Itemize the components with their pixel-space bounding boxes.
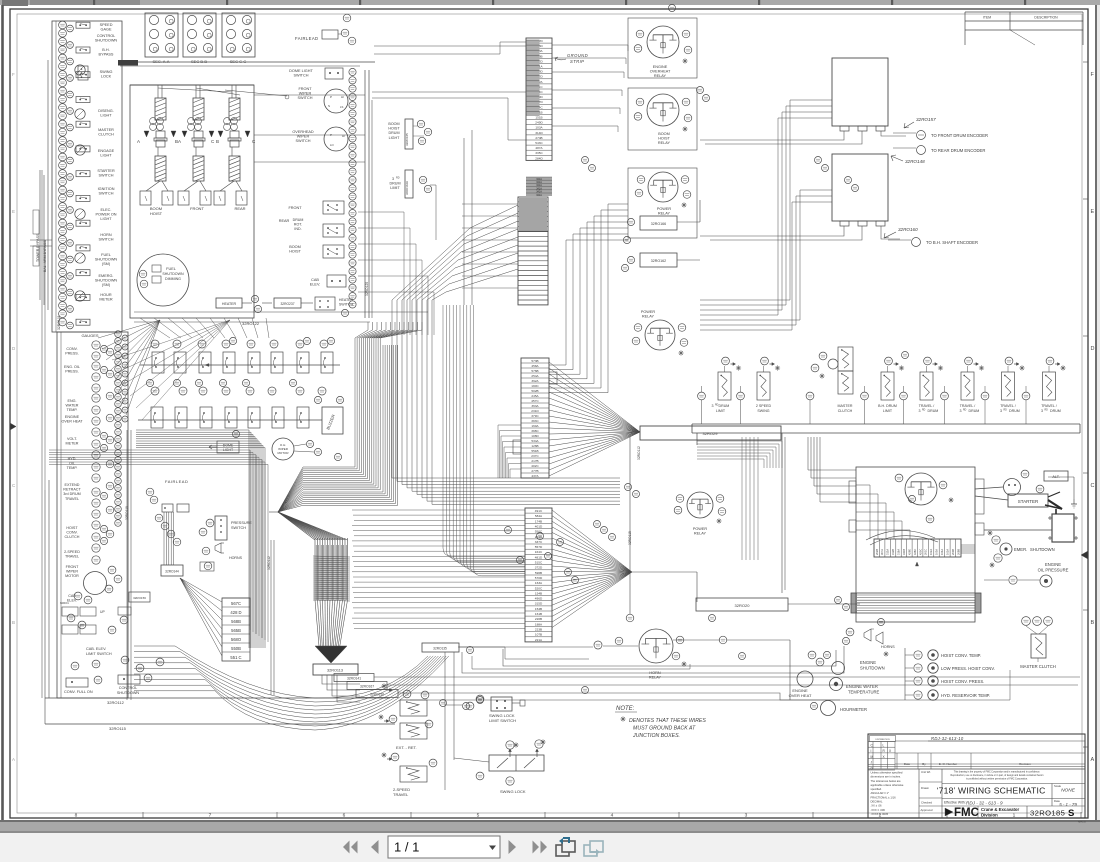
svg-text:32RO112: 32RO112 (637, 446, 641, 460)
svg-text:Scale: Scale (1054, 784, 1061, 788)
svg-text:32RO166: 32RO166 (651, 222, 666, 226)
svg-text:B: B (12, 620, 15, 625)
svg-text:3: 3 (960, 409, 962, 413)
svg-text:CONV.: CONV. (66, 531, 77, 535)
svg-text:MASTER CLUTCH: MASTER CLUTCH (1020, 664, 1056, 669)
svg-text:SHUTDOWN: SHUTDOWN (95, 258, 118, 262)
svg-text:92RO1: 92RO1 (60, 601, 69, 605)
svg-text:EMERG.: EMERG. (99, 274, 114, 278)
svg-text:RELAY: RELAY (658, 141, 671, 145)
svg-text:NOTE:: NOTE: (616, 706, 635, 712)
svg-text:5: 5 (477, 813, 480, 819)
svg-text:3: 3 (1041, 409, 1043, 413)
svg-text:STARTER: STARTER (1018, 499, 1039, 504)
svg-text:32RO162: 32RO162 (651, 259, 666, 263)
svg-text:277B: 277B (531, 469, 538, 473)
svg-text:SHUTDOWN: SHUTDOWN (1030, 547, 1055, 552)
svg-text:401D: 401D (535, 525, 543, 529)
svg-text:420C: 420C (918, 549, 922, 555)
svg-text:LIMIT SWITCH: LIMIT SWITCH (489, 718, 516, 723)
svg-text:(SM): (SM) (102, 262, 111, 266)
svg-text:LIMIT: LIMIT (716, 409, 726, 413)
svg-text:596B: 596B (535, 571, 542, 575)
svg-text:Date: Date (904, 762, 911, 766)
svg-text:496D: 496D (535, 597, 543, 601)
svg-text:HOIST CONV. TEMP.: HOIST CONV. TEMP. (941, 653, 981, 658)
svg-text:32RO20: 32RO20 (735, 603, 751, 608)
svg-text:32RO118: 32RO118 (57, 316, 61, 330)
svg-text:3: 3 (919, 409, 921, 413)
svg-text:32RO165: 32RO165 (405, 133, 409, 146)
svg-text:32RO144: 32RO144 (165, 570, 179, 574)
svg-text:E: E (1091, 209, 1095, 215)
svg-text:TEMPERATURE: TEMPERATURE (848, 690, 880, 695)
svg-text:RELAY: RELAY (654, 74, 667, 78)
svg-text:8: 8 (75, 813, 78, 819)
svg-text:CONTROL: CONTROL (97, 34, 116, 38)
svg-text:154B: 154B (535, 591, 542, 595)
svg-text:CLUTCH: CLUTCH (98, 133, 114, 137)
svg-text:TO REAR DRUM ENCODER: TO REAR DRUM ENCODER (931, 148, 985, 153)
svg-text:TRAVEL: TRAVEL (393, 792, 409, 797)
svg-text:573B: 573B (531, 359, 538, 363)
svg-text:SEC C-C: SEC C-C (230, 59, 247, 64)
svg-text:208B: 208B (956, 549, 960, 555)
svg-text:POWER ON: POWER ON (95, 213, 116, 217)
svg-text:2-SPEED: 2-SPEED (64, 550, 80, 554)
svg-text:DRUM: DRUM (928, 409, 939, 413)
svg-text:ITEM: ITEM (983, 16, 991, 20)
svg-text:HI: HI (342, 134, 345, 138)
svg-text:NONE: NONE (1061, 788, 1076, 794)
svg-text:3rd DRUM: 3rd DRUM (63, 492, 80, 496)
svg-text:OVER HEAT: OVER HEAT (789, 693, 812, 698)
svg-text:ENGINE: ENGINE (653, 65, 668, 69)
svg-text:502B: 502B (531, 389, 538, 393)
svg-text:OVER HEAT: OVER HEAT (61, 420, 83, 424)
svg-text:164C: 164C (535, 550, 543, 554)
svg-text:REAR: REAR (234, 206, 245, 211)
svg-text:TO B.H. SHAFT ENCODER: TO B.H. SHAFT ENCODER (926, 240, 978, 245)
svg-text:WIPER: WIPER (66, 570, 78, 574)
svg-text:254A: 254A (531, 374, 539, 378)
svg-text:TRAVEL: TRAVEL (65, 555, 79, 559)
svg-text:4: 4 (611, 813, 614, 819)
svg-text:RD: RD (1045, 410, 1049, 412)
svg-text:applicable unless otherwise: applicable unless otherwise (871, 783, 904, 787)
svg-text:487A: 487A (535, 146, 543, 150)
svg-text:OVERHEAT: OVERHEAT (650, 70, 671, 74)
svg-text:.XXXX ± .0005: .XXXX ± .0005 (871, 812, 889, 816)
svg-text:SWING LOCK: SWING LOCK (500, 789, 526, 794)
svg-text:DRUM: DRUM (969, 409, 980, 413)
svg-text:By: By (922, 762, 926, 766)
svg-text:OVERHEAD: OVERHEAD (292, 130, 314, 134)
svg-text:EMER.: EMER. (1014, 547, 1027, 552)
svg-text:Reproduction, use or disclosur: Reproduction, use or disclosure, in whol… (951, 774, 1045, 777)
svg-text:HOIST: HOIST (388, 127, 400, 131)
svg-text:PRESS.: PRESS. (65, 370, 79, 374)
svg-text:335C: 335C (535, 151, 543, 155)
svg-text:428 D: 428 D (230, 610, 241, 615)
svg-text:SWITCH: SWITCH (298, 96, 313, 100)
svg-text:DESCRIPTION: DESCRIPTION (1034, 16, 1058, 20)
svg-text:CAB: CAB (68, 594, 76, 598)
svg-text:BOOM: BOOM (658, 132, 670, 136)
svg-text:RELAY: RELAY (694, 532, 707, 536)
svg-text:DRUM: DRUM (388, 131, 399, 135)
svg-text:TOWER BYPASS: TOWER BYPASS (36, 233, 40, 262)
svg-text:CAB: CAB (311, 278, 319, 282)
svg-text:Division: Division (981, 813, 998, 818)
svg-text:32RO164A: 32RO164A (405, 181, 409, 195)
svg-text:108D: 108D (531, 434, 539, 438)
svg-text:TEMP.: TEMP. (67, 466, 78, 470)
svg-text:CONV.: CONV. (66, 347, 77, 351)
svg-text:A: A (12, 757, 15, 762)
svg-text:LIGHT: LIGHT (100, 114, 112, 118)
svg-text:CONTROL: CONTROL (119, 686, 138, 690)
svg-text:E. O. Number: E. O. Number (939, 762, 957, 766)
svg-text:32RO29: 32RO29 (703, 431, 719, 436)
svg-text:MOTOR: MOTOR (277, 451, 289, 455)
svg-text:551 C: 551 C (230, 655, 241, 660)
svg-text:(SM): (SM) (102, 283, 111, 287)
svg-text:151B: 151B (535, 116, 542, 120)
svg-text:METER: METER (99, 298, 113, 302)
svg-text:I: I (871, 749, 872, 753)
svg-text:515C: 515C (535, 561, 543, 565)
svg-text:BOOM: BOOM (289, 245, 301, 249)
svg-text:F: F (12, 72, 15, 77)
svg-text:CONV. FULL ON: CONV. FULL ON (64, 690, 93, 694)
svg-text:C: C (1091, 483, 1095, 489)
svg-text:GROUND: GROUND (567, 53, 588, 58)
svg-text:393C: 393C (531, 419, 539, 423)
svg-text:METER: METER (66, 442, 79, 446)
svg-text:ROT.: ROT. (294, 223, 302, 227)
svg-text:FRONT: FRONT (298, 87, 312, 91)
svg-text:32RO112: 32RO112 (107, 700, 125, 705)
svg-text:HEATER: HEATER (339, 298, 354, 302)
svg-text:DRUM: DRUM (389, 182, 400, 186)
svg-text:32RO135: 32RO135 (433, 647, 447, 651)
svg-text:32RO112: 32RO112 (267, 556, 271, 570)
svg-text:557D: 557D (535, 545, 543, 549)
svg-text:POWER: POWER (693, 527, 708, 531)
svg-text:534A: 534A (531, 439, 539, 443)
svg-text:B.H. DRUM: B.H. DRUM (878, 404, 897, 408)
svg-text:154B: 154B (535, 607, 542, 611)
svg-text:D: D (1091, 346, 1095, 352)
svg-text:ENGINE: ENGINE (860, 660, 876, 665)
svg-text:MOTOR: MOTOR (65, 574, 79, 578)
svg-text:163A: 163A (535, 581, 543, 585)
svg-text:Unit Wt.: Unit Wt. (921, 770, 931, 774)
svg-text:TRAVEL: TRAVEL (65, 497, 79, 501)
svg-text:1 / 1: 1 / 1 (394, 840, 419, 855)
svg-text:FUEL: FUEL (101, 253, 111, 257)
svg-text:SHUTDOWN: SHUTDOWN (95, 279, 118, 283)
svg-text:313A: 313A (886, 549, 890, 555)
svg-text:570D: 570D (535, 576, 543, 580)
svg-text:A: A (1091, 757, 1095, 763)
svg-text:550B: 550B (231, 646, 241, 651)
svg-text:201C: 201C (924, 549, 928, 555)
svg-text:SHUTDOWN: SHUTDOWN (95, 39, 118, 43)
svg-text:568O: 568O (231, 637, 242, 642)
svg-text:LIMIT SWITCH: LIMIT SWITCH (86, 652, 112, 656)
svg-text:315D: 315D (535, 602, 543, 606)
svg-text:VOLT.: VOLT. (67, 437, 77, 441)
svg-text:TRAVEL /: TRAVEL / (960, 404, 976, 408)
svg-text:ELEC.: ELEC. (101, 208, 112, 212)
svg-text:Crane & Excavator: Crane & Excavator (981, 807, 1020, 812)
svg-text:IGNITION: IGNITION (98, 187, 115, 191)
svg-text:MASTER: MASTER (838, 404, 853, 408)
svg-text:249D: 249D (535, 121, 543, 125)
svg-text:161B: 161B (535, 612, 542, 616)
svg-text:32RO157: 32RO157 (916, 117, 936, 122)
svg-text:HOIST: HOIST (289, 250, 301, 254)
svg-text:.XXX ± .006: .XXX ± .006 (871, 808, 886, 812)
svg-text:WATER: WATER (66, 404, 79, 408)
svg-text:HOIST: HOIST (658, 137, 670, 141)
svg-text:Checked: Checked (921, 801, 932, 805)
svg-text:HYD. RESERVOIR TEMP.: HYD. RESERVOIR TEMP. (941, 693, 990, 698)
svg-text:SWITCH: SWITCH (296, 139, 311, 143)
svg-text:202B: 202B (875, 549, 879, 555)
svg-text:337C: 337C (535, 540, 543, 544)
svg-text:102A: 102A (929, 549, 933, 555)
svg-text:190C: 190C (531, 384, 539, 388)
svg-text:402C: 402C (531, 464, 539, 468)
svg-text:B: B (1091, 620, 1095, 626)
svg-text:LIGHT: LIGHT (389, 136, 401, 140)
svg-text:RETRACT: RETRACT (63, 488, 81, 492)
svg-text:32RO160: 32RO160 (898, 227, 918, 232)
svg-text:DIMMING: DIMMING (165, 277, 181, 281)
svg-text:STRIP: STRIP (570, 59, 584, 64)
svg-text:STARTER: STARTER (97, 169, 115, 173)
svg-text:SWING: SWING (100, 70, 113, 74)
svg-text:UP: UP (100, 610, 105, 614)
svg-text:LOW PRESS. HOIST CONV.: LOW PRESS. HOIST CONV. (941, 666, 995, 671)
svg-text:DOME LIGHT: DOME LIGHT (289, 69, 313, 73)
svg-text:274B: 274B (535, 136, 542, 140)
svg-text:specified.: specified. (871, 787, 883, 791)
svg-text:The tolerances below are: The tolerances below are (871, 779, 902, 783)
svg-text:DISENG.: DISENG. (98, 109, 114, 113)
svg-text:3: 3 (745, 813, 748, 819)
svg-text:LIGHT: LIGHT (100, 154, 112, 158)
svg-text:TRAVEL /: TRAVEL / (1041, 404, 1057, 408)
svg-text:203B: 203B (951, 549, 955, 555)
svg-text:32RO141: 32RO141 (347, 677, 361, 681)
svg-text:520C: 520C (535, 586, 543, 590)
svg-text:LOCK: LOCK (101, 75, 112, 79)
svg-text:FRONT: FRONT (288, 206, 302, 210)
svg-text:103A: 103A (535, 126, 543, 130)
svg-text:220B: 220B (535, 617, 542, 621)
svg-text:TO FRONT DRUM ENCODER: TO FRONT DRUM ENCODER (931, 133, 988, 138)
svg-text:S: S (1068, 808, 1074, 819)
svg-text:SWITCH: SWITCH (99, 174, 114, 178)
svg-text:HYD.: HYD. (68, 457, 77, 461)
svg-text:RDJ - 32 - 613 - 9: RDJ - 32 - 613 - 9 (966, 801, 1003, 806)
svg-text:ENGINE: ENGINE (65, 415, 80, 419)
svg-text:A: A (137, 139, 140, 144)
svg-text:HOIST: HOIST (150, 211, 163, 216)
svg-text:NER-10: NER-10 (1078, 822, 1087, 824)
svg-text:RD: RD (1004, 410, 1008, 412)
svg-text:584A: 584A (535, 514, 543, 518)
svg-text:379C: 379C (531, 414, 539, 418)
svg-text:SPEED: SPEED (100, 23, 113, 27)
svg-text:567C: 567C (231, 601, 241, 606)
svg-text:HORNS: HORNS (229, 556, 243, 560)
svg-text:543C: 543C (535, 141, 543, 145)
svg-text:S: S (328, 104, 330, 108)
svg-text:316A: 316A (897, 549, 901, 555)
svg-text:426E: 426E (907, 549, 911, 555)
svg-text:565B: 565B (231, 628, 241, 633)
svg-text:3: 3 (1000, 409, 1002, 413)
svg-text:174B: 174B (535, 519, 542, 523)
svg-text:SEC B-B: SEC B-B (191, 59, 207, 64)
svg-text:FRACTIONAL ± 1/16: FRACTIONAL ± 1/16 (871, 795, 897, 799)
svg-text:DRUM: DRUM (719, 404, 730, 408)
svg-text:.XX ± .06: .XX ± .06 (871, 804, 883, 808)
svg-text:SWITCH: SWITCH (99, 192, 114, 196)
svg-text:FRONT: FRONT (66, 565, 79, 569)
svg-text:ENG. OIL: ENG. OIL (64, 365, 80, 369)
svg-text:SWITCH: SWITCH (294, 74, 309, 78)
svg-text:126B: 126B (531, 444, 538, 448)
svg-text:32RO113: 32RO113 (327, 669, 343, 673)
svg-text:GAGE: GAGE (101, 28, 112, 32)
svg-text:EXTEND: EXTEND (65, 483, 80, 487)
svg-text:SEC. A-A: SEC. A-A (153, 59, 170, 64)
svg-text:LS: LS (340, 105, 344, 109)
svg-text:Revision: Revision (1019, 762, 1031, 766)
svg-text:RELAY: RELAY (658, 212, 671, 216)
svg-text:‘718’ WIRING SCHEMATIC: ‘718’ WIRING SCHEMATIC (937, 786, 1046, 796)
svg-text:DRUM: DRUM (1050, 409, 1061, 413)
svg-text:Drawn: Drawn (921, 786, 930, 790)
svg-text:32RO156: 32RO156 (133, 596, 146, 600)
svg-text:TRAVEL /: TRAVEL / (1000, 404, 1016, 408)
svg-text:PRESS.: PRESS. (65, 352, 79, 356)
svg-text:B: B (175, 139, 178, 144)
svg-text:481D: 481D (535, 555, 543, 559)
svg-text:HOUR: HOUR (100, 293, 111, 297)
svg-text:EXT. - RET.: EXT. - RET. (396, 745, 417, 750)
svg-text:SWING: SWING (757, 409, 769, 413)
svg-text:223B: 223B (535, 628, 542, 632)
svg-text:FRONT: FRONT (190, 206, 204, 211)
svg-text:RD: RD (396, 177, 400, 180)
svg-text:32RO115: 32RO115 (109, 726, 127, 731)
svg-text:HORNS: HORNS (881, 645, 895, 649)
svg-text:HORN: HORN (100, 233, 111, 237)
svg-text:398C: 398C (531, 429, 539, 433)
svg-text:32RO148: 32RO148 (905, 159, 925, 164)
svg-text:7: 7 (209, 813, 212, 819)
svg-text:SHUTDOWN: SHUTDOWN (117, 691, 140, 695)
svg-text:188A: 188A (535, 622, 543, 626)
svg-text:RDJ-32-613-10: RDJ-32-613-10 (931, 736, 964, 741)
svg-text:245A: 245A (531, 394, 539, 398)
svg-text:Unless otherwise specified: Unless otherwise specified (871, 771, 903, 775)
svg-text:DECIMAL: DECIMAL (871, 800, 883, 804)
svg-text:568B: 568B (231, 619, 241, 624)
svg-text:SWITCH: SWITCH (99, 238, 114, 242)
svg-text:DRUM: DRUM (1009, 409, 1020, 413)
svg-text:Effective With:: Effective With: (944, 801, 966, 805)
svg-text:3: 3 (712, 404, 714, 408)
svg-text:DRUM: DRUM (293, 218, 304, 222)
svg-text:221A: 221A (535, 638, 543, 642)
svg-text:457C: 457C (531, 399, 539, 403)
svg-text:32RO167: 32RO167 (360, 685, 374, 689)
svg-text:CLUTCH: CLUTCH (838, 409, 853, 413)
svg-text:LIMIT: LIMIT (390, 186, 400, 190)
svg-text:B.H.: B.H. (102, 48, 109, 52)
svg-text:REAR: REAR (279, 219, 290, 223)
svg-text:M: M (871, 755, 874, 759)
svg-text:A: A (178, 139, 181, 144)
svg-text:is prohibited without written: is prohibited without written permission… (966, 778, 1028, 781)
svg-text:CLUTCH: CLUTCH (65, 535, 80, 539)
svg-text:HOIST: HOIST (66, 526, 78, 530)
svg-text:FUEL: FUEL (166, 267, 176, 271)
svg-text:OIL PRESSURE: OIL PRESSURE (1038, 568, 1069, 573)
svg-text:SWITCH: SWITCH (339, 303, 354, 307)
svg-text:32RO115: 32RO115 (628, 531, 632, 545)
svg-text:237C: 237C (531, 454, 539, 458)
svg-text:MUST GROUND BACK AT: MUST GROUND BACK AT (633, 726, 696, 732)
svg-text:2 SPEED: 2 SPEED (756, 404, 772, 408)
svg-text:491C: 491C (535, 509, 543, 513)
svg-text:TRAVEL /: TRAVEL / (919, 404, 935, 408)
svg-text:32RO237: 32RO237 (280, 302, 294, 306)
svg-text:458A: 458A (531, 364, 539, 368)
svg-text:LIMIT: LIMIT (883, 409, 893, 413)
svg-text:231D: 231D (531, 409, 539, 413)
svg-text:SHUTDOWN: SHUTDOWN (162, 272, 184, 276)
svg-text:CAB. ELEV.: CAB. ELEV. (86, 647, 106, 651)
svg-text:JUNCTION BOXES.: JUNCTION BOXES. (632, 733, 680, 739)
svg-text:312B: 312B (891, 549, 895, 555)
svg-text:SHUTDOWN: SHUTDOWN (860, 666, 885, 671)
svg-text:LIGHT: LIGHT (100, 217, 112, 221)
svg-text:437A: 437A (531, 474, 539, 478)
svg-text:dimensions are in inches.: dimensions are in inches. (871, 775, 902, 779)
svg-text:L: L (883, 744, 885, 748)
svg-text:TEMP.: TEMP. (67, 408, 78, 412)
svg-text:314D: 314D (535, 131, 543, 135)
svg-text:32RO120: 32RO120 (365, 282, 369, 296)
svg-text:BYPASS: BYPASS (99, 53, 114, 57)
svg-text:FAIRLEAD: FAIRLEAD (295, 36, 318, 41)
svg-text:HEATER: HEATER (222, 302, 237, 306)
svg-text:GAUGES: GAUGES (81, 333, 98, 338)
svg-text:POWER: POWER (657, 207, 672, 211)
svg-text:POWER: POWER (641, 310, 656, 314)
svg-text:HOURMETER: HOURMETER (840, 707, 867, 712)
svg-text:428C: 428C (913, 549, 917, 555)
